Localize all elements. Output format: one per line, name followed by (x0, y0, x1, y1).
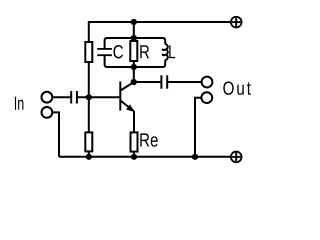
node ground dot at R2 (86, 154, 92, 160)
capacitor C plates (97, 49, 112, 55)
power terminal + top right (231, 17, 242, 28)
tank circuit outline top (105, 38, 166, 49)
wire bottom ground rail (59, 156, 231, 158)
transistor Q1 collector lead (121, 82, 134, 91)
label R (140, 45, 149, 58)
node dot on supply rail (131, 19, 137, 25)
input terminal upper circle (42, 92, 53, 103)
output terminal lower circle (201, 92, 212, 103)
wire input upper terminal to coupling cap (52, 96, 71, 98)
wire input cap to transistor base (77, 96, 120, 98)
label In (15, 97, 23, 110)
label C (113, 45, 123, 58)
wire input lower terminal to ground rail (52, 112, 59, 156)
resistor R2 lower bias (85, 132, 92, 151)
wire collector to output cap (134, 81, 162, 83)
label L (169, 45, 175, 58)
node tank bottom dot (131, 64, 137, 70)
transistor Q1 emitter lead (121, 101, 134, 112)
resistor R1 upper bias (85, 42, 92, 62)
wire Re to ground rail (133, 152, 135, 157)
label Out (223, 81, 251, 94)
node ground dot at output return (192, 154, 198, 160)
inductor L (163, 44, 168, 60)
node tank top dot (131, 35, 137, 41)
wire top supply rail (89, 22, 231, 42)
transistor Q1 emitter arrowhead (126, 104, 134, 112)
wire supply rail to tank top (133, 22, 135, 38)
tank circuit outline bottom (105, 55, 166, 67)
wire bias divider vertical (88, 62, 90, 133)
resistor Re (131, 132, 138, 151)
node collector junction dot (131, 79, 137, 85)
wire emitter to Re (133, 111, 135, 132)
node ground dot at Re (131, 154, 137, 160)
wire output cap to output terminal (167, 81, 201, 83)
output terminal upper circle (202, 77, 213, 88)
capacitor output coupling (161, 75, 167, 88)
wire output lower terminal to ground rail (195, 98, 201, 157)
resistor R tank (130, 41, 137, 61)
wire through tank resistor R (133, 38, 135, 67)
capacitor input coupling (71, 91, 77, 104)
node base junction dot (86, 94, 92, 100)
power terminal + bottom right (231, 152, 242, 163)
wire R2 to ground rail (88, 151, 90, 156)
input terminal lower circle (42, 107, 53, 118)
wire tank bottom to collector node (133, 67, 135, 82)
transistor Q1 base bar (119, 82, 121, 111)
label Re (140, 133, 158, 146)
